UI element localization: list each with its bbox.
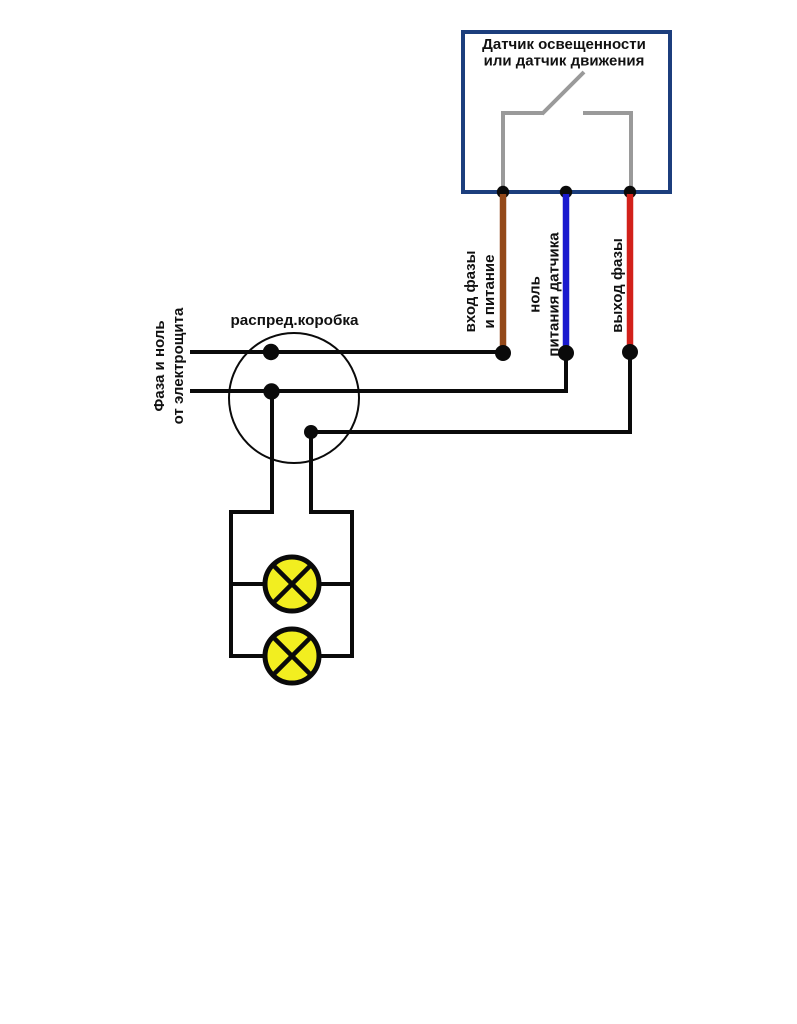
switch S1 left contact <box>503 113 543 192</box>
lamp group frame top-left segment <box>231 512 272 658</box>
svg-text:от электрощита: от электрощита <box>170 307 187 424</box>
node C: switched phase junction in distribution box <box>304 425 318 439</box>
svg-text:питания датчика: питания датчика <box>546 232 563 357</box>
pin dot: phase input terminal <box>497 186 509 198</box>
svg-text:Датчик освещенности: Датчик освещенности <box>482 36 646 53</box>
pin dot: neutral terminal <box>560 186 572 198</box>
wire: neutral down to lamp group <box>270 391 274 514</box>
svg-text:или датчик движения: или датчик движения <box>484 53 645 70</box>
label: Фаза и ноль от электрощита <box>151 307 187 424</box>
svg-text:вход фазы: вход фазы <box>462 251 479 333</box>
lamp EL2 <box>265 629 319 683</box>
label: вход фазы и питание <box>462 251 498 333</box>
lamp group frame top-right segment <box>311 512 352 658</box>
lamp EL1 <box>265 557 319 611</box>
wire red (выход фазы) <box>627 194 634 347</box>
sensor box U1 (Датчик освещенности или датчик движения) <box>463 32 670 192</box>
svg-text:Фаза и ноль: Фаза и ноль <box>151 320 168 411</box>
node A: phase junction in distribution box <box>263 344 279 360</box>
label: ноль питания датчика <box>527 232 563 357</box>
svg-text:выход фазы: выход фазы <box>609 238 626 333</box>
switch S1 lever <box>542 72 584 114</box>
wire: neutral from panel to blue wire junction <box>190 352 566 391</box>
wire: switched phase down to lamp group <box>309 432 313 514</box>
label: выход фазы <box>609 238 626 333</box>
wire: phase from panel to brown wire junction <box>190 350 503 354</box>
junction dot: blue wire to neutral line <box>558 345 574 361</box>
node B: neutral junction in distribution box <box>263 383 279 399</box>
wire: switched phase from red wire to lamps <box>311 352 630 432</box>
wire: lamp 2 branch <box>229 654 354 658</box>
svg-text:распред.коробка: распред.коробка <box>231 312 360 329</box>
wire brown (вход фазы и питание) <box>500 194 507 347</box>
junction dot: red wire to lamp line <box>622 344 638 360</box>
svg-text:ноль: ноль <box>527 276 544 313</box>
junction dot: brown wire to phase line <box>495 345 511 361</box>
switch S1 right contact <box>583 113 631 192</box>
wire blue (ноль питания датчика) <box>563 194 570 347</box>
wire: lamp 1 branch <box>231 582 352 586</box>
distribution box circle (распред.коробка) <box>229 333 359 463</box>
pin dot: phase output terminal <box>624 186 636 198</box>
svg-text:и питание: и питание <box>481 255 498 329</box>
